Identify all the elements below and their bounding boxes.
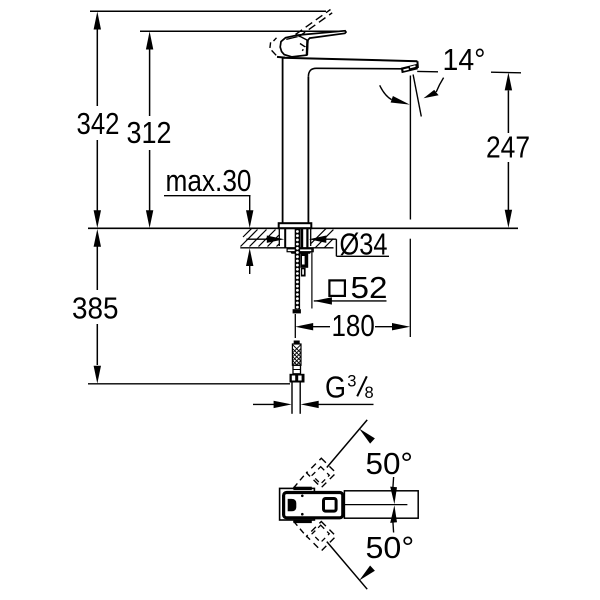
dimension 385 <box>72 229 119 384</box>
svg-text:180: 180 <box>332 309 375 343</box>
lever solid <box>280 31 346 57</box>
stream vertical line <box>409 76 411 220</box>
top view: dashed knob positions upper <box>294 458 337 488</box>
svg-text:8: 8 <box>365 384 374 402</box>
extension line for 52 <box>311 249 313 309</box>
dimension 312 <box>127 31 172 228</box>
svg-text:342: 342 <box>77 107 120 141</box>
extension line top (342 level) <box>90 10 326 12</box>
hole left edge <box>278 228 280 246</box>
top view: dashed knob positions lower <box>294 521 337 551</box>
extension line 385 bottom <box>88 383 290 385</box>
svg-text:50°: 50° <box>366 531 415 565</box>
hatching left <box>241 229 280 247</box>
svg-text:G: G <box>325 370 346 405</box>
washer <box>287 249 313 252</box>
svg-text:50°: 50° <box>366 447 414 481</box>
stud end cap <box>293 309 301 313</box>
G3/8 nut <box>290 374 305 383</box>
shank left wall <box>284 229 286 248</box>
svg-text:max.30: max.30 <box>166 164 252 198</box>
dimension 342 <box>77 12 120 229</box>
svg-text:3: 3 <box>347 373 356 391</box>
connection pipe <box>291 383 293 414</box>
dimension 180 <box>295 239 410 343</box>
stream tilted line <box>413 75 421 117</box>
blade rectangle <box>344 491 418 518</box>
spout underside <box>308 68 401 77</box>
svg-text:14°: 14° <box>443 43 486 77</box>
centerline <box>344 504 407 506</box>
extension line 312 level <box>140 30 345 32</box>
extension line 180 right <box>409 239 411 337</box>
lever raised dashed <box>270 10 332 58</box>
deck cross-section <box>240 228 333 248</box>
deck bottom line <box>240 247 333 249</box>
deck top line <box>88 227 518 229</box>
dimension square 52 <box>312 249 388 309</box>
50 degree lower annotation <box>327 505 414 589</box>
body left edge <box>282 58 284 223</box>
aerator <box>401 64 418 73</box>
dimension G3/8 <box>253 370 374 409</box>
hose through deck <box>300 229 303 248</box>
top view: lever assembly <box>284 491 419 518</box>
hatching right <box>311 229 333 248</box>
threaded stud <box>293 229 301 338</box>
top surface <box>283 58 418 62</box>
svg-text:52: 52 <box>351 271 388 305</box>
svg-text:247: 247 <box>486 130 530 164</box>
svg-text:312: 312 <box>127 116 172 150</box>
shank right wall <box>306 229 308 248</box>
extension line 180 left <box>294 314 296 338</box>
hose ferrule <box>293 365 301 374</box>
base plate <box>279 223 312 228</box>
hose fitting below deck <box>300 253 308 276</box>
mounting shank below deck <box>284 229 313 254</box>
svg-text:Ø34: Ø34 <box>340 227 388 261</box>
braided hose lower section <box>290 341 305 414</box>
locknut <box>290 252 311 254</box>
50 degree upper annotation <box>327 420 413 504</box>
svg-text:385: 385 <box>72 292 119 326</box>
dimension max.30 <box>164 164 253 274</box>
dimension 247 <box>486 72 530 228</box>
body right edge <box>307 77 309 223</box>
dimension D34 <box>246 227 389 261</box>
spout right edge <box>416 61 419 68</box>
hole right edge <box>310 228 312 246</box>
faucet body side view <box>279 58 418 229</box>
top view: body square <box>280 487 315 523</box>
label 14 degrees <box>380 43 486 220</box>
